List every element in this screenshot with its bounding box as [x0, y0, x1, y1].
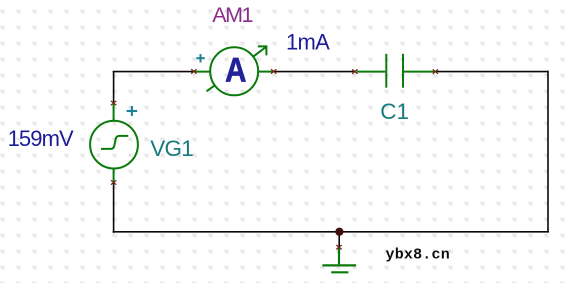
- svg-text:VG1: VG1: [150, 136, 193, 161]
- AM1 arrow shaft (upper-right): [253, 47, 266, 57]
- AM1 circle: [210, 47, 258, 95]
- VG1 waveform (step): [101, 136, 128, 149]
- wire: left vertical upper segment: [113, 72, 115, 103]
- junction node on bottom wire: [335, 228, 343, 236]
- wire: ground stub from junction to ground pin: [338, 233, 340, 247]
- svg-text:C1: C1: [380, 99, 409, 124]
- ground pin vertical: [338, 247, 340, 264]
- capacitor C1: [357, 54, 435, 88]
- VG1 plus sign: [127, 106, 138, 116]
- ground bar long: [322, 264, 356, 266]
- wire: top horizontal, corner to AM1 left pin: [113, 71, 193, 73]
- ground bar short: [331, 271, 348, 273]
- AM1 plus sign: [196, 54, 205, 62]
- wire: top horizontal, C1 right pin to top-right corner: [436, 71, 548, 73]
- AM1 arrow tail stub (lower-left): [207, 85, 216, 91]
- AM1 pin stub left: [194, 71, 210, 73]
- wire: right vertical: [547, 71, 549, 232]
- AM1 pin X mark left: [191, 69, 196, 73]
- ground: [322, 247, 356, 272]
- svg-text:AM1: AM1: [212, 3, 252, 27]
- AM1 arrowhead: [258, 46, 267, 55]
- C1 lead right: [404, 71, 435, 73]
- C1 pin X mark right: [433, 69, 438, 73]
- svg-text:159mV: 159mV: [8, 126, 74, 151]
- C1 plate right: [402, 54, 404, 88]
- ammeter AM1: [194, 46, 274, 95]
- AM1 letter A: [225, 50, 246, 89]
- VG1 pin stub bottom: [113, 169, 115, 183]
- C1 lead left: [357, 71, 386, 73]
- AM1 pin stub right: [258, 71, 274, 73]
- ground pin X mark: [336, 245, 341, 249]
- VG1 circle: [90, 121, 138, 169]
- svg-text:ybx8.cn: ybx8.cn: [386, 246, 450, 263]
- AM1 pin X mark right: [271, 69, 276, 73]
- wire: bottom horizontal: [113, 231, 549, 233]
- wire: top horizontal, AM1 right pin to C1 left pin: [274, 71, 355, 73]
- wire: left vertical lower segment: [113, 183, 115, 233]
- VG1 pin stub top: [113, 103, 115, 121]
- VG1 pin X mark top: [111, 101, 116, 105]
- svg-text:A: A: [225, 50, 246, 89]
- C1 pin X mark left: [352, 69, 357, 73]
- VG1 pin X mark bottom: [111, 180, 116, 184]
- voltage generator VG1: [90, 103, 138, 183]
- C1 plate left: [385, 54, 387, 88]
- svg-text:1mA: 1mA: [286, 30, 330, 55]
